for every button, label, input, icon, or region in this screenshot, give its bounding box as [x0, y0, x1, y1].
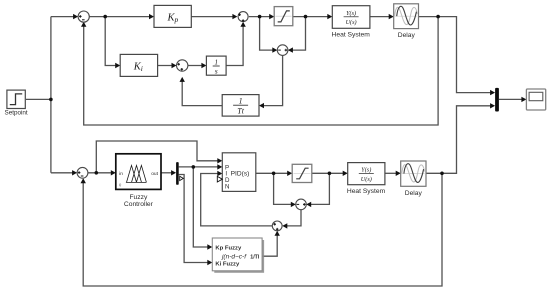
svg-text:Heat System: Heat System [332, 31, 371, 38]
svg-text:Y(s): Y(s) [346, 10, 356, 17]
svg-text:1/TI: 1/TI [250, 254, 260, 260]
svg-text:PID(s): PID(s) [231, 171, 250, 178]
svg-text:s: s [215, 66, 218, 75]
svg-text:Delay: Delay [398, 32, 416, 39]
svg-text:Kp Fuzzy: Kp Fuzzy [215, 246, 242, 252]
svg-text:1: 1 [239, 96, 243, 105]
svg-text:Heat System: Heat System [347, 188, 386, 195]
svg-text:1: 1 [214, 59, 218, 67]
svg-text:Ki Fuzzy: Ki Fuzzy [215, 262, 240, 268]
svg-text:j(n-d~c-f: j(n-d~c-f [221, 254, 247, 261]
svg-text:N: N [225, 184, 229, 191]
svg-text:Controller: Controller [124, 201, 154, 208]
svg-text:Delay: Delay [405, 190, 423, 197]
svg-text:out: out [151, 171, 158, 177]
svg-text:U(s): U(s) [346, 19, 357, 26]
svg-text:in: in [119, 171, 123, 177]
svg-text:U(s): U(s) [361, 176, 372, 183]
svg-text:Setpoint: Setpoint [5, 110, 28, 117]
svg-text:Tt: Tt [237, 107, 244, 116]
svg-text:Y(s): Y(s) [361, 167, 371, 174]
